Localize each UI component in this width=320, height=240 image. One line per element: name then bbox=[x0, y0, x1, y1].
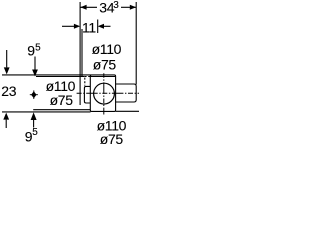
9.5 top arrow1 tail bbox=[6, 50, 8, 67]
arrowhead 9.5 top no.2 (down) bbox=[32, 70, 38, 77]
svg-text:11: 11 bbox=[82, 19, 96, 35]
short edge line B bbox=[81, 29, 83, 77]
svg-text:23: 23 bbox=[1, 83, 16, 99]
arrowhead 11 left (pointing right) bbox=[74, 24, 80, 29]
9.5 bottom arrow1 tail bbox=[5, 120, 7, 128]
left extension/object edge line A bbox=[79, 2, 81, 105]
9.5 top arrow2 tail bbox=[34, 57, 36, 70]
circle (socket opening) bbox=[94, 83, 115, 104]
svg-text:ø75: ø75 bbox=[100, 131, 124, 144]
hidden edge vertical left tab bbox=[84, 78, 86, 86]
dimension line 34.3 right segment bbox=[121, 6, 136, 8]
svg-text:5: 5 bbox=[32, 127, 38, 138]
arrowhead 9.5 bottom no.1 (up) bbox=[3, 113, 9, 120]
hidden edge dashes top of left tab bbox=[85, 76, 91, 78]
left tab bbox=[84, 86, 90, 103]
plate top outer line bbox=[2, 74, 91, 76]
arrowhead 34.3 left bbox=[80, 5, 86, 10]
body square bbox=[90, 75, 115, 112]
svg-text:ø75: ø75 bbox=[93, 56, 117, 72]
arrowhead 11 right (pointing left) bbox=[98, 24, 104, 29]
dimension 23 marker ticks bbox=[30, 94, 38, 96]
right extension line bbox=[135, 2, 137, 85]
svg-text:ø75: ø75 bbox=[50, 92, 74, 108]
diamond position marker bbox=[31, 91, 36, 98]
arrowhead 34.3 right bbox=[130, 5, 136, 10]
dimension 11 right tail bbox=[104, 25, 111, 27]
arrowhead 9.5 top no.1 (down) bbox=[4, 67, 10, 74]
bottom line extension to right edge bbox=[116, 110, 139, 112]
centerline vertical bbox=[103, 73, 105, 114]
svg-text:5: 5 bbox=[35, 42, 41, 53]
dimension 11 left tail bbox=[62, 25, 74, 27]
plate bottom inner line bbox=[33, 109, 90, 111]
svg-text:ø110: ø110 bbox=[92, 41, 122, 57]
dimension 11 right extension line bbox=[97, 20, 99, 34]
9.5 bottom arrow2 tail bbox=[33, 120, 35, 128]
dimension line 34.3 left segment bbox=[80, 6, 97, 8]
svg-text:3: 3 bbox=[113, 0, 119, 11]
svg-text:9: 9 bbox=[27, 43, 35, 59]
right tab bbox=[116, 84, 137, 102]
centerline horizontal bbox=[77, 92, 139, 94]
plate bottom outer line bbox=[2, 111, 91, 113]
plate top inner line bbox=[36, 76, 84, 78]
arrowhead 9.5 bottom no.2 (up) bbox=[31, 112, 37, 120]
